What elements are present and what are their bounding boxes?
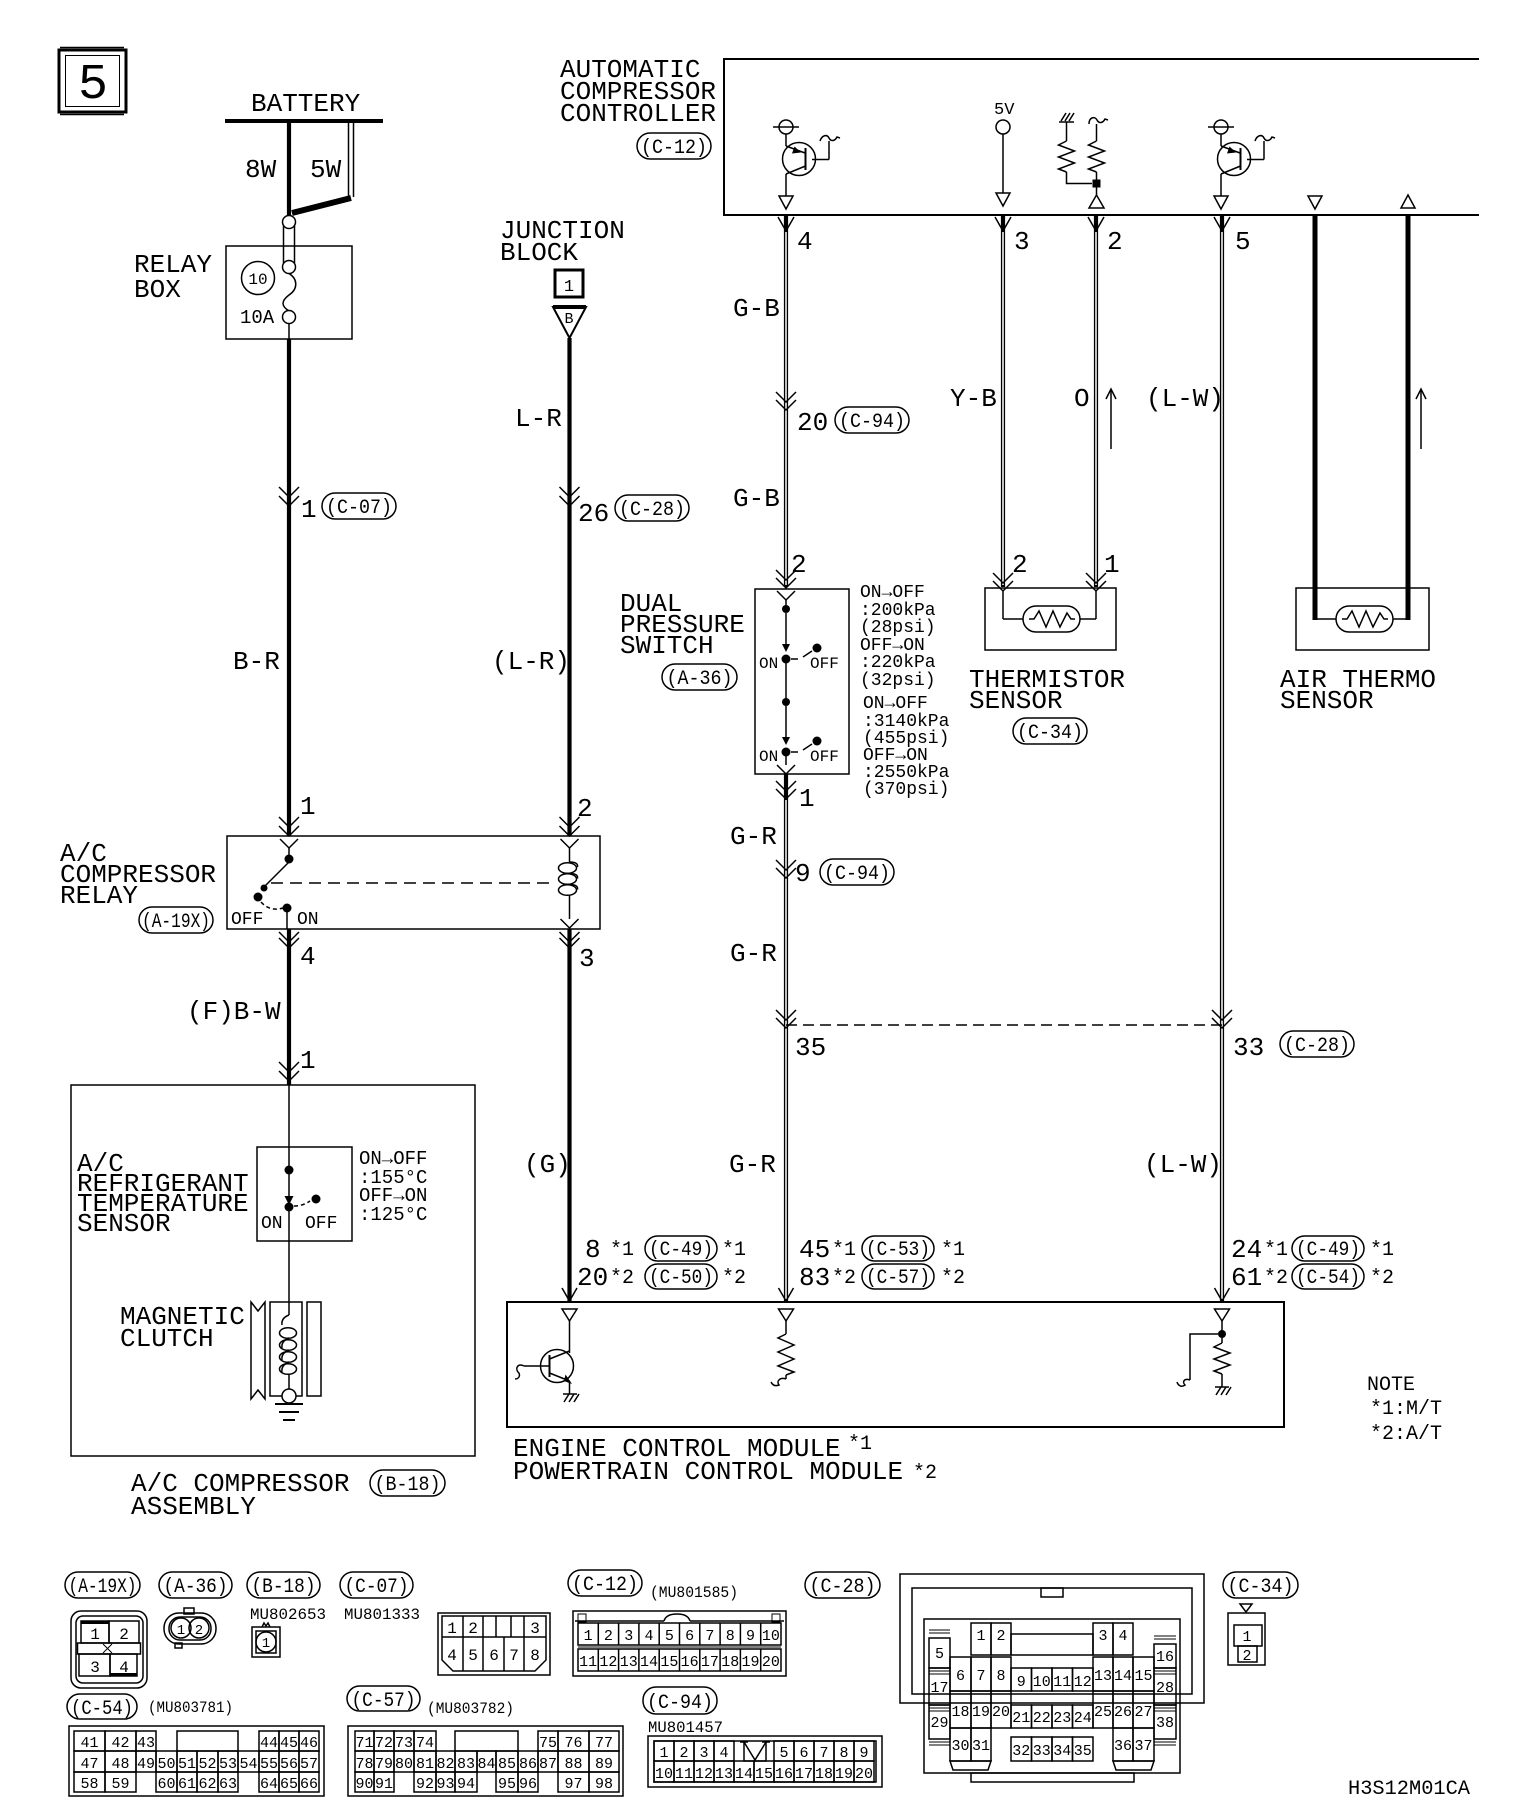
svg-text:(C-49): (C-49) [1296, 1239, 1360, 1262]
svg-text:35: 35 [1074, 1743, 1092, 1760]
svg-text:85: 85 [498, 1756, 516, 1773]
svg-text:8: 8 [530, 1647, 540, 1665]
relay box [134, 246, 352, 339]
svg-text:46: 46 [300, 1735, 318, 1752]
svg-text:(B-18): (B-18) [375, 1474, 441, 1497]
svg-text:76: 76 [564, 1735, 582, 1752]
svg-text:SENSOR: SENSOR [77, 1209, 171, 1239]
svg-text:32: 32 [1012, 1743, 1030, 1760]
svg-text:BOX: BOX [134, 275, 181, 305]
connector 9 (C-94) on G-R wire [776, 859, 894, 889]
wire B-R battery to relay [233, 339, 289, 836]
svg-text:19: 19 [972, 1704, 990, 1721]
svg-text:7: 7 [705, 1628, 714, 1645]
svg-text:ON: ON [759, 748, 778, 766]
ground (magnetic clutch) [275, 1404, 303, 1420]
svg-text:38: 38 [1156, 1715, 1174, 1732]
svg-text:83: 83 [799, 1263, 830, 1293]
svg-text:20: 20 [797, 408, 828, 438]
svg-text:65: 65 [280, 1776, 298, 1793]
svg-text:13: 13 [715, 1766, 733, 1783]
svg-text:OFF: OFF [810, 655, 839, 673]
svg-text:98: 98 [595, 1776, 613, 1793]
svg-text:G-R: G-R [729, 1150, 776, 1180]
svg-text:17: 17 [930, 1680, 948, 1697]
svg-text:3: 3 [530, 1620, 540, 1638]
svg-text:17: 17 [795, 1766, 813, 1783]
DPS lower contact [759, 698, 839, 766]
svg-text:9: 9 [746, 1628, 755, 1645]
fusible link 8W [245, 123, 289, 216]
svg-text:96: 96 [519, 1776, 537, 1793]
svg-text:CONTROLLER: CONTROLLER [560, 99, 716, 129]
svg-text:(C-54): (C-54) [1296, 1267, 1360, 1290]
wire G-R DPS to ECM [729, 774, 786, 1301]
svg-text:17: 17 [701, 1654, 719, 1671]
connector drawing A-36 [164, 1608, 216, 1648]
connector drawing C-94 [648, 1736, 882, 1787]
relay coil [559, 848, 579, 928]
svg-text:47: 47 [80, 1756, 98, 1773]
A/C compressor relay A-19X [60, 836, 600, 934]
svg-text:*1: *1 [1370, 1239, 1394, 1262]
svg-text:(C-07): (C-07) [345, 1576, 409, 1599]
svg-text:33: 33 [1233, 1033, 1264, 1063]
direction arrow on wire O [1106, 389, 1116, 449]
svg-text:OFF: OFF [231, 910, 263, 930]
svg-text:20: 20 [762, 1654, 780, 1671]
svg-text:52: 52 [198, 1756, 216, 1773]
svg-text:22: 22 [1033, 1710, 1051, 1727]
junction block [500, 216, 625, 297]
svg-text:16: 16 [775, 1766, 793, 1783]
svg-text:*1: *1 [941, 1239, 965, 1262]
A/C refrigerant temperature sensor [77, 1085, 352, 1241]
connector 1 (C-07) on B-R wire [279, 487, 396, 525]
svg-text:78: 78 [355, 1756, 373, 1773]
ECM labels [513, 1433, 937, 1487]
svg-text:O: O [1074, 384, 1090, 414]
A/C compressor assembly box B-18 [71, 1085, 475, 1522]
svg-text:20: 20 [577, 1263, 608, 1293]
svg-text:6: 6 [956, 1668, 965, 1685]
controller resistor R1 [1059, 113, 1093, 184]
svg-text:2: 2 [1012, 550, 1028, 580]
svg-text:1: 1 [584, 1628, 593, 1645]
svg-text:(C-57): (C-57) [352, 1690, 416, 1713]
svg-text:45: 45 [280, 1735, 298, 1752]
svg-text:(C-94): (C-94) [647, 1692, 713, 1715]
svg-text:6: 6 [799, 1745, 808, 1762]
svg-text:24: 24 [1074, 1710, 1092, 1727]
svg-text:1: 1 [301, 495, 317, 525]
svg-text:ON: ON [297, 910, 319, 930]
svg-text:ON: ON [759, 655, 778, 673]
svg-text:5: 5 [468, 1647, 478, 1665]
svg-text:(A-36): (A-36) [667, 668, 733, 691]
svg-text:(MU801585): (MU801585) [650, 1584, 738, 1602]
svg-text:8: 8 [996, 1668, 1005, 1685]
svg-text:(C-28): (C-28) [1284, 1035, 1350, 1058]
thick wire air thermo left [1313, 215, 1318, 620]
svg-text:(C-28): (C-28) [810, 1576, 876, 1599]
svg-text:1: 1 [177, 1623, 185, 1639]
svg-text:12: 12 [1074, 1674, 1092, 1691]
svg-text:12: 12 [695, 1766, 713, 1783]
ECM pin labels left: 8 *1 (C-49) *1 / 20 *2 (C-50) *2 [577, 1235, 746, 1293]
svg-text:(C-34): (C-34) [1017, 722, 1083, 745]
svg-text:ON: ON [261, 1214, 283, 1234]
svg-text:5: 5 [1235, 227, 1251, 257]
svg-text:1: 1 [447, 1620, 457, 1638]
automatic compressor controller C-12 [560, 55, 1479, 215]
svg-text:8W: 8W [245, 155, 277, 185]
air thermo sensor [1280, 588, 1436, 716]
svg-text:2: 2 [791, 550, 807, 580]
svg-text:B: B [564, 311, 573, 328]
connector drawing A-19X [71, 1611, 147, 1688]
svg-text:19: 19 [741, 1654, 759, 1671]
svg-text:90: 90 [355, 1776, 373, 1793]
connector oval C-57 [347, 1686, 514, 1718]
svg-text:MU801457: MU801457 [648, 1719, 723, 1737]
svg-text:(C-49): (C-49) [649, 1239, 713, 1262]
svg-text:G-R: G-R [730, 822, 777, 852]
svg-text:1: 1 [799, 784, 815, 814]
relay pin 4 [279, 932, 316, 972]
svg-text:45: 45 [799, 1235, 830, 1265]
svg-text:29: 29 [930, 1715, 948, 1732]
svg-text:*2: *2 [722, 1267, 746, 1290]
connector drawing C-28 [900, 1574, 1204, 1782]
svg-text:10A: 10A [240, 307, 275, 329]
relay pin 3 [560, 932, 595, 974]
connector oval C-34 [1223, 1572, 1298, 1599]
svg-text:7: 7 [819, 1745, 828, 1762]
controller pin 2 [1088, 217, 1123, 257]
svg-text:11: 11 [1053, 1674, 1071, 1691]
svg-text:*2: *2 [941, 1267, 965, 1290]
svg-text:(G): (G) [524, 1150, 571, 1180]
DPS pin 1 [776, 765, 815, 814]
svg-text:58: 58 [80, 1776, 98, 1793]
svg-text:37: 37 [1134, 1738, 1152, 1755]
svg-text:23: 23 [1053, 1710, 1071, 1727]
svg-text:28: 28 [1156, 1680, 1174, 1697]
svg-text:(C-94): (C-94) [839, 411, 905, 434]
svg-text:95: 95 [498, 1776, 516, 1793]
svg-text:NOTE: NOTE [1367, 1374, 1415, 1397]
svg-text:92: 92 [416, 1776, 434, 1793]
note [1367, 1374, 1442, 1446]
svg-text:ASSEMBLY: ASSEMBLY [131, 1492, 256, 1522]
svg-text:11: 11 [675, 1766, 693, 1783]
relay pin 1 [279, 792, 316, 848]
svg-text:18: 18 [721, 1654, 739, 1671]
svg-text:1: 1 [90, 1626, 100, 1644]
svg-text:66: 66 [300, 1776, 318, 1793]
svg-text:(A-19X): (A-19X) [69, 1576, 137, 1599]
connector drawing B-18 [250, 1606, 326, 1657]
svg-text:14: 14 [1114, 1668, 1132, 1685]
svg-text:(370psi): (370psi) [863, 780, 949, 800]
svg-text:8: 8 [839, 1745, 848, 1762]
svg-text:55: 55 [260, 1756, 278, 1773]
svg-text:80: 80 [395, 1756, 413, 1773]
svg-text:MU801333: MU801333 [344, 1606, 420, 1624]
svg-text:3: 3 [1014, 227, 1030, 257]
svg-text:75: 75 [539, 1735, 557, 1752]
wire (G) relay to ECM [524, 929, 571, 1301]
svg-text:POWERTRAIN CONTROL MODULE: POWERTRAIN CONTROL MODULE [513, 1457, 903, 1487]
connector oval A-19X [65, 1572, 140, 1599]
svg-text:49: 49 [137, 1756, 155, 1773]
svg-text:SENSOR: SENSOR [969, 686, 1063, 716]
svg-text:54: 54 [239, 1756, 257, 1773]
connector oval C-94 [643, 1687, 723, 1737]
svg-text:1: 1 [1242, 1629, 1251, 1646]
svg-text:*1: *1 [1264, 1239, 1288, 1262]
svg-text:4: 4 [447, 1647, 457, 1665]
svg-text:*2: *2 [1264, 1267, 1288, 1290]
thermistor element [1023, 606, 1080, 632]
svg-text:BATTERY: BATTERY [251, 89, 361, 119]
svg-text:*2: *2 [1370, 1267, 1394, 1290]
svg-text:10: 10 [655, 1766, 673, 1783]
svg-text:(C-57): (C-57) [866, 1267, 930, 1290]
svg-text:3: 3 [1098, 1628, 1107, 1645]
connector 26 (C-28) on L-R wire [560, 487, 690, 529]
svg-text:(L-W): (L-W) [1146, 384, 1224, 414]
svg-text:G-R: G-R [730, 939, 777, 969]
svg-text:64: 64 [260, 1776, 278, 1793]
svg-text:10: 10 [1033, 1674, 1051, 1691]
wire O controller to thermistor [1074, 215, 1096, 587]
svg-text:71: 71 [355, 1735, 373, 1752]
DPS pin 2 [776, 550, 807, 600]
controller pin 3 [995, 217, 1030, 257]
svg-text:(MU803782): (MU803782) [427, 1700, 514, 1718]
svg-text:56: 56 [280, 1756, 298, 1773]
svg-text:31: 31 [972, 1738, 990, 1755]
svg-text:L-R: L-R [515, 404, 562, 434]
DPS upper contact [759, 600, 839, 699]
ECM resistor network (pin 33) [1177, 1309, 1231, 1395]
svg-text:50: 50 [157, 1756, 175, 1773]
svg-text:1: 1 [300, 792, 316, 822]
connector 20 (C-94) on G-B wire [776, 392, 909, 438]
svg-text:27: 27 [1134, 1704, 1152, 1721]
svg-text:(C-94): (C-94) [824, 863, 890, 886]
svg-text:43: 43 [137, 1735, 155, 1752]
svg-text:72: 72 [375, 1735, 393, 1752]
svg-text:5W: 5W [310, 155, 342, 185]
svg-text:SWITCH: SWITCH [620, 631, 714, 661]
connector oval C-12 [568, 1570, 738, 1602]
svg-text:*1:M/T: *1:M/T [1370, 1398, 1442, 1421]
svg-text:(28psi): (28psi) [860, 618, 936, 638]
svg-text:18: 18 [951, 1704, 969, 1721]
controller terminal triangle x1408 [1401, 195, 1415, 208]
svg-text:61: 61 [178, 1776, 196, 1793]
battery [225, 89, 383, 121]
svg-text:1: 1 [262, 1636, 270, 1652]
svg-text:(C-28): (C-28) [619, 499, 685, 522]
svg-text:4: 4 [797, 227, 813, 257]
svg-text:2: 2 [996, 1628, 1005, 1645]
svg-text:20: 20 [855, 1766, 873, 1783]
svg-text:(C-34): (C-34) [1228, 1576, 1294, 1599]
svg-text:9: 9 [859, 1745, 868, 1762]
junction dot resistors [1093, 180, 1101, 188]
svg-text:2: 2 [119, 1626, 129, 1644]
svg-text:79: 79 [375, 1756, 393, 1773]
refrigerant sensor switch notes [359, 1148, 427, 1226]
magnetic clutch [120, 1241, 321, 1403]
controller output transistor Q1 [773, 120, 840, 209]
svg-text:Y-B: Y-B [950, 384, 997, 414]
svg-text:2: 2 [679, 1745, 688, 1762]
svg-text:11: 11 [579, 1654, 597, 1671]
svg-text:4: 4 [1118, 1628, 1127, 1645]
svg-text:26: 26 [578, 499, 609, 529]
svg-text:*1: *1 [610, 1239, 634, 1262]
svg-text:G-B: G-B [733, 294, 780, 324]
svg-text:74: 74 [416, 1735, 434, 1752]
svg-text:60: 60 [157, 1776, 175, 1793]
svg-text:9: 9 [795, 859, 811, 889]
svg-text:3: 3 [624, 1628, 633, 1645]
svg-text:16: 16 [681, 1654, 699, 1671]
svg-text:20: 20 [992, 1704, 1010, 1721]
svg-text:3: 3 [90, 1659, 100, 1677]
dual pressure switch A-36 [620, 589, 849, 774]
svg-text:6: 6 [685, 1628, 694, 1645]
connector C-12 cell grid [579, 1623, 780, 1671]
controller pin 4 [778, 217, 813, 257]
svg-text:44: 44 [260, 1735, 278, 1752]
svg-text:RELAY: RELAY [60, 881, 138, 911]
svg-text:7: 7 [509, 1647, 519, 1665]
svg-text:1: 1 [300, 1046, 316, 1076]
wire G-B controller to dual pressure switch [733, 215, 786, 587]
svg-text:15: 15 [660, 1654, 678, 1671]
svg-text:97: 97 [564, 1776, 582, 1793]
thick wire air thermo right [1406, 215, 1411, 620]
svg-text:1: 1 [1104, 550, 1120, 580]
relay dashed actuator line [271, 882, 551, 884]
svg-text:4: 4 [300, 942, 316, 972]
svg-text:G-B: G-B [733, 484, 780, 514]
svg-text:91: 91 [375, 1776, 393, 1793]
svg-text:(F)B-W: (F)B-W [187, 997, 281, 1027]
svg-text:14: 14 [640, 1654, 658, 1671]
ECM pull resistor (pin 35) [771, 1309, 794, 1386]
svg-text:2: 2 [468, 1620, 478, 1638]
svg-text:15: 15 [755, 1766, 773, 1783]
controller output transistor Q2 [1208, 120, 1275, 209]
svg-text:57: 57 [300, 1756, 318, 1773]
DPS pressure notes upper [860, 583, 936, 691]
svg-text:2: 2 [604, 1628, 613, 1645]
svg-text:6: 6 [489, 1647, 499, 1665]
svg-text:13: 13 [620, 1654, 638, 1671]
svg-text:*2: *2 [832, 1267, 856, 1290]
svg-text:61: 61 [1231, 1263, 1262, 1293]
svg-text:*2:A/T: *2:A/T [1370, 1423, 1442, 1446]
svg-text:73: 73 [395, 1735, 413, 1752]
svg-text:18: 18 [815, 1766, 833, 1783]
svg-text:4: 4 [719, 1745, 728, 1762]
svg-text:33: 33 [1033, 1743, 1051, 1760]
svg-text:62: 62 [198, 1776, 216, 1793]
svg-text:5V: 5V [994, 101, 1015, 120]
svg-text:(C-12): (C-12) [572, 1574, 638, 1597]
wire (F)B-W [187, 929, 316, 1085]
connector drawing C-07 [344, 1606, 550, 1675]
svg-text:3: 3 [579, 944, 595, 974]
connector oval A-36 [159, 1572, 232, 1599]
svg-text:8: 8 [726, 1628, 735, 1645]
svg-text:(L-R): (L-R) [492, 647, 570, 677]
svg-text:53: 53 [219, 1756, 237, 1773]
svg-text:5: 5 [935, 1646, 944, 1663]
svg-text:26: 26 [1114, 1704, 1132, 1721]
svg-text:*1: *1 [722, 1239, 746, 1262]
svg-text:87: 87 [539, 1756, 557, 1773]
svg-text:34: 34 [1053, 1743, 1071, 1760]
svg-text:(A-19X): (A-19X) [142, 911, 210, 934]
svg-text:82: 82 [436, 1756, 454, 1773]
svg-text:OFF: OFF [810, 748, 839, 766]
svg-text:84: 84 [477, 1756, 495, 1773]
connector oval C-54 [67, 1694, 233, 1721]
svg-text:8: 8 [585, 1235, 601, 1265]
svg-text:12: 12 [599, 1654, 617, 1671]
svg-text::220kPa: :220kPa [860, 653, 936, 673]
svg-text:3: 3 [699, 1745, 708, 1762]
controller pin 2 terminal triangle [1089, 195, 1104, 208]
svg-text:CLUTCH: CLUTCH [120, 1324, 214, 1354]
svg-text:77: 77 [595, 1735, 613, 1752]
svg-text:86: 86 [519, 1756, 537, 1773]
svg-text:9: 9 [1017, 1674, 1026, 1691]
svg-text:1: 1 [976, 1628, 985, 1645]
svg-text:(C-50): (C-50) [649, 1267, 713, 1290]
fuse 10A [240, 262, 296, 340]
svg-text:B-R: B-R [233, 647, 280, 677]
svg-text::125°C: :125°C [359, 1204, 427, 1226]
dashed tie line 35/33 C-28 [776, 1010, 1354, 1063]
connector oval C-28 [805, 1572, 880, 1599]
ECM box [507, 1288, 1284, 1427]
svg-text:83: 83 [457, 1756, 475, 1773]
connector oval B-18 [247, 1572, 320, 1599]
svg-text:2: 2 [1242, 1648, 1251, 1665]
connector drawing C-57 [348, 1726, 623, 1796]
svg-text:51: 51 [178, 1756, 196, 1773]
connector drawing C-34 [1228, 1604, 1265, 1665]
svg-text:19: 19 [835, 1766, 853, 1783]
svg-text:ON→OFF: ON→OFF [863, 694, 928, 714]
svg-text:OFF: OFF [305, 1214, 337, 1234]
svg-text:24: 24 [1231, 1235, 1262, 1265]
svg-text:4: 4 [119, 1659, 129, 1677]
svg-text:5: 5 [78, 57, 108, 114]
relay pin 2 [560, 794, 593, 848]
svg-text:(32psi): (32psi) [860, 671, 936, 691]
svg-text:42: 42 [111, 1735, 129, 1752]
